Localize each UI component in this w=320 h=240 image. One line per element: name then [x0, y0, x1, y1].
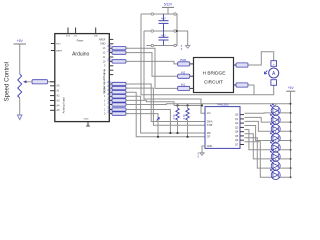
wire +V rail to motor return [141, 14, 254, 95]
wire cap left bottom [146, 45, 151, 47]
resistor R3 [112, 99, 126, 102]
svg-text:5/12V: 5/12V [164, 3, 173, 7]
arduino top pin 3V3 [67, 28, 69, 34]
arduino right pin D9 [109, 65, 113, 67]
svg-text:4.7k: 4.7k [182, 114, 186, 120]
arduino right pin DAREF [109, 38, 113, 40]
wire D7 to IC DS [126, 84, 205, 122]
wire OUT1 to motor [248, 52, 274, 65]
arduino right pin 3 [109, 99, 113, 101]
svg-text:Q6: Q6 [235, 139, 239, 142]
wire D12 to IN2 [126, 53, 178, 77]
wire D10 to PWM [126, 61, 178, 64]
LED D3 [275, 122, 277, 136]
wire to ground (caps) [177, 31, 188, 44]
wire D0 joins CP line [126, 114, 158, 137]
svg-text:+5V: +5V [288, 86, 295, 90]
junction rail-R3 [176, 104, 178, 106]
svg-text:AREF: AREF [56, 49, 62, 52]
arduino right pin D10 [109, 60, 113, 62]
LED D4 [275, 131, 277, 145]
svg-text:Q3: Q3 [235, 126, 239, 129]
arduino right pin D13 [109, 47, 113, 49]
svg-text:CIRCUIT: CIRCUIT [204, 80, 223, 85]
junction R4-CP [186, 136, 188, 138]
wire D6 to IC ST [126, 88, 205, 125]
junction LED row 0 [290, 103, 292, 105]
junction LED row 8 [290, 176, 292, 178]
svg-text:+5V: +5V [17, 39, 24, 43]
svg-text:220: 220 [107, 50, 112, 53]
svg-text:220: 220 [107, 81, 112, 84]
resistor R1 [112, 108, 126, 111]
junction cap mid [176, 30, 178, 32]
arduino right pin 6 [109, 87, 113, 89]
junction rail-Vcc [201, 104, 203, 106]
wire pullup rail [174, 105, 202, 107]
wire D1 joins MR line [126, 110, 170, 134]
svg-text:ST/B: ST/B [207, 124, 213, 127]
svg-text:Q1: Q1 [235, 118, 239, 121]
junction LED row 7 [290, 167, 292, 169]
junction LED row 2 [290, 121, 292, 123]
h-bridge U2 body [194, 58, 234, 93]
resistor R5 [112, 91, 126, 94]
arduino pin A3 [50, 100, 55, 102]
wire pot bottom to ground [19, 98, 21, 115]
svg-text:220: 220 [107, 101, 112, 104]
wire Q2 to LED3 [245, 121, 291, 131]
resistor R6 [112, 86, 126, 89]
motor direction arrow [264, 71, 267, 75]
junction LED row 1 [290, 112, 292, 114]
arduino right pin D8 [109, 69, 113, 71]
potentiometer RV1 [18, 74, 22, 98]
h-bridge pin IN1 [190, 87, 194, 89]
h-bridge pin OUT2 [234, 84, 239, 86]
svg-text:4.7k: 4.7k [172, 114, 176, 120]
ground (IC) [201, 151, 203, 153]
wire Q3 to LED4 [245, 126, 291, 141]
svg-text:CP: CP [207, 136, 211, 139]
resistor R-OUT2 [236, 83, 248, 87]
svg-text:220: 220 [107, 45, 112, 48]
arduino right pin D11 [109, 56, 113, 58]
svg-text:220: 220 [107, 89, 112, 92]
resistor R10 [112, 60, 126, 63]
LED D8 [275, 168, 277, 182]
ic U3 body [205, 107, 240, 149]
wire D13 to IN1 [126, 48, 178, 88]
svg-text:Q5: Q5 [235, 135, 239, 138]
svg-text:Speed Control: Speed Control [3, 62, 10, 102]
arduino U1 body [55, 34, 110, 122]
resistor R-OUT1 [236, 63, 248, 67]
resistor R13 [112, 47, 126, 50]
arduino top pin 5V [75, 28, 77, 34]
wire R3 to MR [177, 120, 179, 133]
svg-text:Q2: Q2 [235, 122, 239, 125]
wire A-row to pullup rail [126, 100, 174, 105]
wire D3 to IC MR [126, 96, 205, 133]
resistor R4 4.7k [186, 108, 189, 120]
motor M1 body [269, 68, 279, 78]
wire Q1 to LED2 [245, 117, 291, 122]
wire cap left mid [144, 30, 151, 32]
motor M1 terminal - [271, 80, 277, 86]
svg-text:74HC595: 74HC595 [217, 102, 229, 106]
arduino right pin 2 [109, 104, 113, 106]
LED D2 [275, 113, 277, 127]
h-bridge pin OUT1 [234, 64, 239, 66]
wire R4 to CP [187, 120, 189, 137]
svg-text:VIN: VIN [94, 36, 98, 38]
wire D5 to IC CP [126, 92, 205, 137]
arduino right pin 5 [109, 91, 113, 93]
wire IC GND to ground [202, 146, 205, 151]
wire Q0 to LED1 [245, 112, 291, 114]
arduino right pin 4 [109, 95, 113, 97]
LED D6 [275, 150, 277, 164]
net label arrow [157, 118, 160, 121]
wire Q5 to LED6 [245, 134, 291, 159]
resistor R0 [112, 112, 126, 115]
wire LED supply rail [290, 95, 292, 177]
svg-text:DS/A: DS/A [207, 120, 213, 123]
wire D4 to LED row0 [126, 103, 291, 106]
junction LED row 3 [290, 130, 292, 132]
wire cap left top [141, 13, 151, 15]
arduino pin A0 [50, 85, 55, 87]
wire cap right vertical [175, 14, 178, 46]
resistor R2 [112, 103, 126, 106]
svg-text:220: 220 [107, 111, 112, 114]
wire Q7 to LED8 [245, 142, 291, 178]
h-bridge pin IN2 [190, 75, 194, 77]
wire bottom rail [154, 45, 174, 47]
junction LED row 5 [290, 149, 292, 151]
resistor R7 [112, 82, 126, 85]
svg-text:Q7: Q7 [235, 143, 239, 146]
wire mid rail [154, 30, 174, 32]
arduino pin A4 [50, 104, 55, 106]
junction R3-MR [176, 132, 178, 134]
wire OUT2 to motor [248, 85, 254, 95]
h-bridge pin IN-PWM [190, 63, 194, 65]
svg-text:GND: GND [84, 119, 89, 121]
arduino right pin 0 [109, 113, 113, 115]
LED D7 [275, 159, 277, 173]
svg-text:AREF: AREF [99, 38, 106, 41]
arduino right pin D12 [109, 52, 113, 54]
wire mid rail to IC Vcc [144, 31, 205, 113]
svg-text:Power: Power [77, 40, 84, 43]
wire Q6 to LED7 [245, 138, 291, 168]
resistor R4 [112, 95, 126, 98]
resistor R3 4.7k [176, 108, 179, 120]
LED D5 [275, 141, 277, 155]
arduino pin A5 [50, 109, 55, 111]
svg-text:Q4: Q4 [235, 131, 239, 134]
wire Q4 to LED5 [245, 130, 291, 150]
svg-text:+: + [273, 62, 275, 66]
arduino pin A2 [50, 95, 55, 97]
svg-text:220: 220 [107, 85, 112, 88]
svg-text:RST: RST [56, 43, 61, 45]
svg-text:Analog Input: Analog Input [61, 97, 65, 113]
junction LED row 6 [290, 158, 292, 160]
svg-text:220: 220 [107, 58, 112, 61]
junction LED row 4 [290, 140, 292, 142]
svg-text:220: 220 [107, 106, 112, 109]
wire top rail [154, 13, 174, 15]
motor M1 terminal + [271, 61, 277, 67]
svg-text:220: 220 [107, 97, 112, 100]
arduino right pin DGND [109, 43, 113, 45]
svg-text:GND: GND [207, 145, 213, 148]
svg-text:Q0: Q0 [235, 114, 239, 117]
arduino pin A0 (pot input) [50, 81, 55, 83]
arduino top pin VIN [95, 28, 97, 34]
svg-text:GND: GND [100, 43, 106, 46]
ground (pot) [17, 115, 22, 120]
junction rail-R4 [186, 104, 188, 106]
svg-text:H BRIDGE: H BRIDGE [203, 71, 226, 76]
resistor R12 [112, 51, 126, 54]
svg-text:MR: MR [207, 132, 211, 135]
svg-text:Arduino: Arduino [72, 52, 89, 58]
arduino right pin 1 [109, 109, 113, 111]
arduino right pin D7 [109, 74, 113, 76]
LED D1 [275, 104, 277, 118]
ground (caps) [187, 44, 189, 46]
svg-text:-: - [273, 81, 274, 85]
arduino pin A1 [50, 90, 55, 92]
svg-text:220: 220 [107, 93, 112, 96]
resistor R-pot (wiper series) [32, 80, 48, 84]
arduino right pin 7 [109, 83, 113, 85]
